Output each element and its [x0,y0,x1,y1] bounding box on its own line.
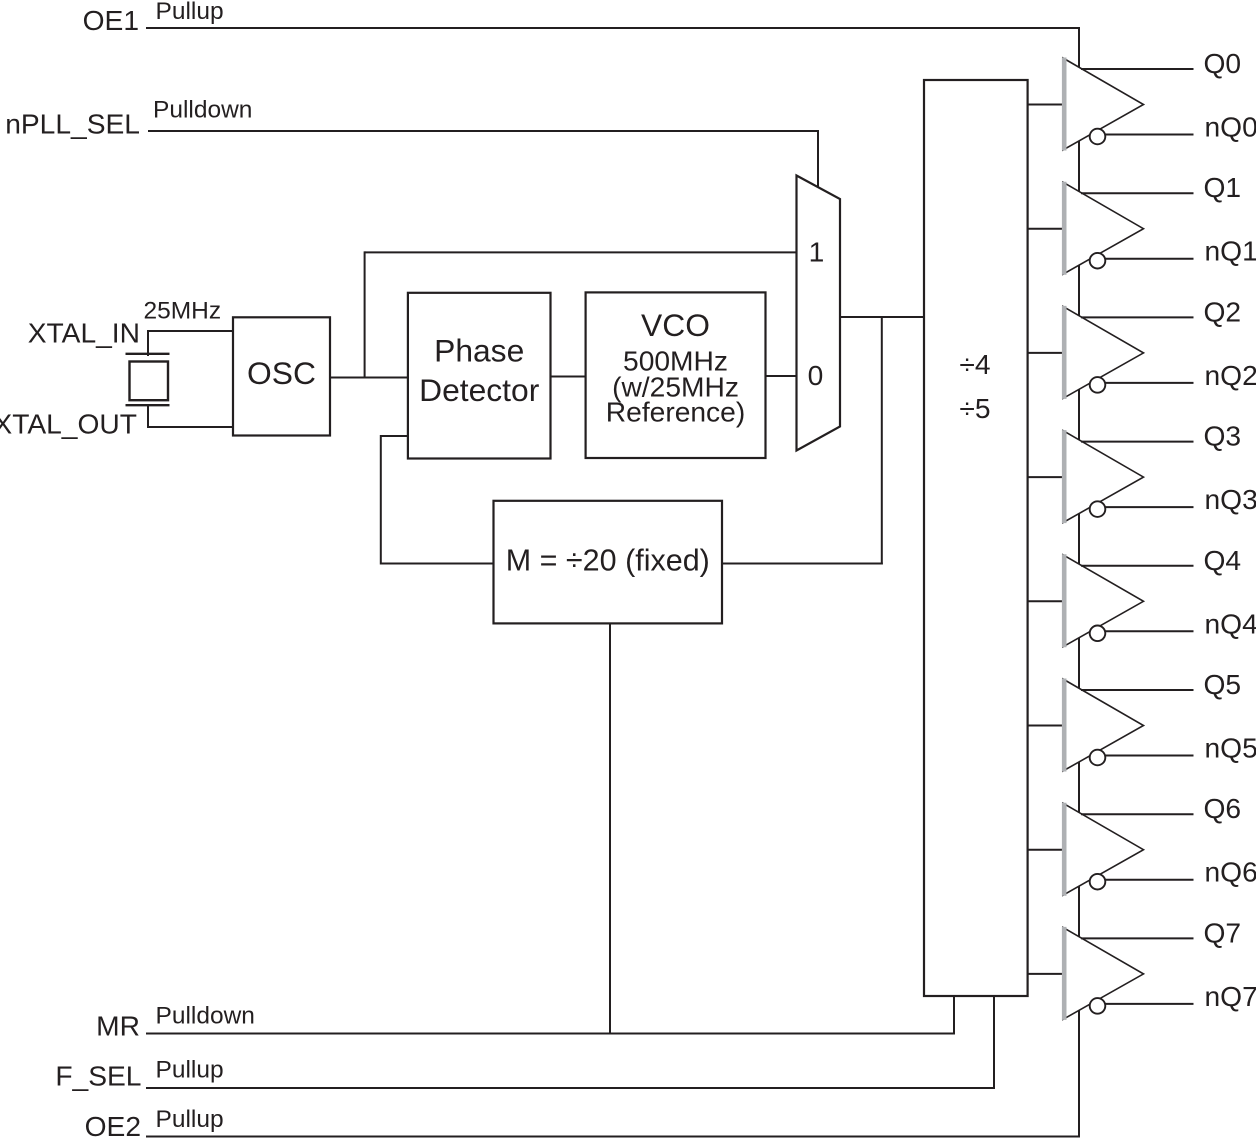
svg-text:Pullup: Pullup [156,1056,224,1083]
output buffer U6 [1063,803,1144,896]
svg-text:Pullup: Pullup [156,0,224,25]
svg-text:OE1: OE1 [83,4,139,36]
svg-text:Q6: Q6 [1204,792,1242,824]
svg-text:1: 1 [809,236,825,268]
crystal X1 top plate [126,353,170,355]
wire Q7 output [1081,937,1194,939]
wire Q0 output [1081,68,1194,70]
inversion bubble nQ7 [1090,998,1106,1014]
wire XTAL_OUT [148,426,233,428]
wire F_SEL horizontal [146,1087,995,1089]
svg-text:÷5: ÷5 [959,392,990,424]
svg-text:XTAL_OUT: XTAL_OUT [0,408,137,440]
wire nQ3 output [1106,506,1194,508]
wire VCO to mux input 0 [766,375,798,377]
mux (PLL bypass select) [797,176,841,451]
svg-text:XTAL_IN: XTAL_IN [28,317,140,349]
inversion bubble nQ5 [1090,750,1106,766]
svg-text:0: 0 [808,359,824,391]
crystal X1 bottom plate [126,404,170,406]
wire feedback into Phase Detector [381,435,408,437]
wire Q5 output [1081,689,1194,691]
svg-text:nQ6: nQ6 [1205,856,1256,888]
wire divider output stub 0 [1028,104,1066,106]
wire nQ0 output [1106,134,1194,136]
wire XTAL_IN drop to crystal [147,330,149,356]
inversion bubble nQ2 [1090,377,1106,393]
svg-text:Q5: Q5 [1204,668,1242,700]
wire nPLL_SEL horizontal [148,130,818,132]
feedback divider M box [494,501,723,624]
svg-text:M = ÷20 (fixed): M = ÷20 (fixed) [506,544,710,578]
svg-text:OE2: OE2 [85,1110,141,1139]
wire feedback vertical from mux output [881,316,883,565]
output buffer U7 [1063,927,1144,1020]
wire mux output to divider [840,316,925,318]
inversion bubble nQ1 [1090,253,1106,269]
wire MR horizontal [146,1033,955,1035]
svg-text:nQ0: nQ0 [1205,111,1256,143]
svg-text:Q4: Q4 [1204,544,1242,576]
inversion bubble nQ0 [1090,129,1106,145]
wire Q2 output [1081,316,1194,318]
svg-text:nQ2: nQ2 [1205,359,1256,391]
wire Q3 output [1081,441,1194,443]
wire M divider left to feedback riser [381,563,494,565]
wire crystal to XTAL_OUT [147,404,149,428]
svg-text:nQ7: nQ7 [1205,980,1256,1012]
wire nQ7 output [1106,1003,1194,1005]
inversion bubble nQ3 [1090,501,1106,517]
oscillator OSC box [233,317,330,435]
wire nQ6 output [1106,879,1194,881]
wire divider output stub 4 [1028,600,1066,602]
wire MR riser to divider box [953,995,955,1035]
wire M divider bottom to MR line [609,623,611,1035]
wire Phase Detector to VCO [551,376,586,378]
svg-text:Q3: Q3 [1204,420,1242,452]
svg-text:÷4: ÷4 [959,348,990,380]
wire mux input 1 feed [365,251,797,253]
svg-text:VCO: VCO [641,307,710,343]
svg-text:nQ3: nQ3 [1205,483,1256,515]
wire OE1 horizontal [146,27,1080,29]
inversion bubble nQ4 [1090,626,1106,642]
wire F_SEL riser to divider box [993,995,995,1089]
svg-text:Q1: Q1 [1204,171,1242,203]
svg-text:nQ4: nQ4 [1205,607,1256,639]
phase detector box [408,293,551,459]
wire junction vertical OSC to mux1 [364,251,366,377]
svg-text:Pullup: Pullup [156,1106,224,1133]
svg-text:nPLL_SEL: nPLL_SEL [5,108,140,140]
svg-text:Pulldown: Pulldown [153,97,252,124]
svg-text:nQ1: nQ1 [1205,235,1256,267]
svg-text:Q0: Q0 [1204,47,1242,79]
wire Q4 output [1081,565,1194,567]
wire feedback to M divider right [722,563,883,565]
crystal X1 body [130,362,169,401]
wire divider output stub 3 [1028,476,1066,478]
wire OE1/OE2 vertical rail [1078,27,1080,1138]
wire divider output stub 1 [1028,228,1066,230]
wire nQ1 output [1106,258,1194,260]
VCO box [586,292,766,458]
output buffer U1 [1063,182,1144,275]
wire feedback riser left [380,435,382,565]
svg-text:MR: MR [96,1009,140,1041]
output buffer U4 [1063,554,1144,647]
svg-text:nQ5: nQ5 [1205,732,1256,764]
output buffer U5 [1063,679,1144,772]
wire nQ4 output [1106,630,1194,632]
output buffer U0 [1063,58,1144,151]
svg-text:Detector: Detector [419,372,540,408]
wire OE2 horizontal [146,1136,1080,1138]
wire nQ2 output [1106,382,1194,384]
wire divider output stub 5 [1028,725,1066,727]
wire nQ5 output [1106,755,1194,757]
svg-text:Q2: Q2 [1204,295,1242,327]
wire OSC to Phase Detector [330,377,408,379]
output divider div4 div5 box [924,80,1028,996]
output buffer U2 [1063,306,1144,399]
wire divider output stub 6 [1028,849,1066,851]
svg-text:Reference): Reference) [606,395,745,427]
output buffer U3 [1063,430,1144,523]
svg-text:Q7: Q7 [1204,916,1242,948]
wire divider output stub 7 [1028,973,1066,975]
inversion bubble nQ6 [1090,874,1106,890]
svg-text:Pulldown: Pulldown [156,1002,255,1029]
wire nPLL_SEL vertical to mux select [817,130,819,192]
wire divider output stub 2 [1028,352,1066,354]
wire Q1 output [1081,192,1194,194]
svg-text:OSC: OSC [247,355,316,391]
svg-text:Phase: Phase [434,333,524,369]
wire XTAL_IN [148,330,233,332]
svg-text:F_SEL: F_SEL [55,1060,141,1092]
wire Q6 output [1081,813,1194,815]
svg-text:25MHz: 25MHz [144,298,222,325]
